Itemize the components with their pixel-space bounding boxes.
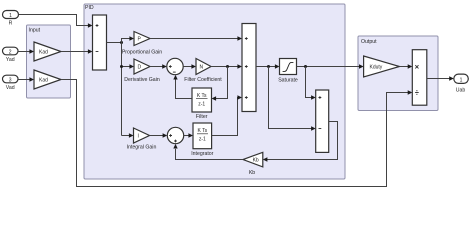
svg-text:Kad: Kad [39,49,48,55]
gain Kad2 [34,70,61,89]
wire D to sum circle 1 [150,64,167,68]
svg-text:Integrator: Integrator [191,151,213,157]
wire Kb to sum circle 2 bottom [173,144,243,160]
svg-text:K Ts: K Ts [197,93,207,99]
gain P Proportional Gain [122,32,162,56]
wire summer1 out to branch node [107,41,124,44]
saturation block Saturate [278,59,298,84]
svg-text:Output: Output [361,39,377,45]
svg-text:D: D [138,65,142,71]
discrete block Integrator K Ts/(z-1) [191,123,213,157]
svg-text:Filter: Filter [196,114,208,120]
wire Saturate out to Kduty with branch to summer3 in1 [297,64,364,99]
svg-text:K Ts: K Ts [197,128,207,134]
svg-text:Yad: Yad [6,57,15,63]
subsystem PID [84,4,345,179]
sum circle 2 (integrator sum) [167,127,183,143]
svg-text:z-1: z-1 [199,137,206,143]
svg-text:1: 1 [9,13,12,19]
svg-text:2: 2 [9,49,12,55]
svg-text:N: N [200,65,204,71]
wire product to output port [427,76,454,80]
gain D Derivative Gain [124,59,160,83]
gain Kad1 [34,42,61,61]
summer3 Add (sat - presat) [316,90,329,152]
gain Kduty [364,56,400,77]
subsystem Output [358,36,438,111]
wire summer2 out to Saturate with presat branch [256,64,316,130]
input port 1 R [3,11,19,27]
wire Kduty to product in1 [400,64,413,68]
svg-text:Derivative Gain: Derivative Gain [124,77,160,83]
sum circle 1 (derivative filter sum) [167,58,183,74]
wire Kad2 to product divide input (bottom route) [61,80,412,187]
svg-text:Kduty: Kduty [370,65,383,71]
product block Divide [412,50,427,105]
wire Kad1 to summer1 in2 [61,49,93,53]
svg-text:Proportional Gain: Proportional Gain [122,50,162,56]
svg-text:z-1: z-1 [198,102,205,108]
svg-text:Integral Gain: Integral Gain [127,145,157,151]
svg-text:Filter Coefficient: Filter Coefficient [184,77,222,83]
summer2 Add (P + N + I) [242,24,256,112]
svg-text:3: 3 [9,77,12,83]
gain I Integral Gain [127,128,157,151]
gain Kb (left pointing) [243,152,263,176]
wire N to summer2 in2 with junction to Filter [211,64,242,100]
wire Vad to gain Kad2 [18,77,34,81]
svg-text:Kb: Kb [253,157,259,163]
wire branch vertical to P D I [120,36,134,137]
svg-text:Vad: Vad [6,85,15,91]
discrete block Filter K Ts/(z-1) [192,88,212,120]
output port 1 Uab [454,74,469,93]
svg-text:Uab: Uab [456,88,466,94]
wire I to sum circle 2 [150,133,168,137]
wire R to summer1 in1 [19,15,93,28]
wire Yad to gain Kad1 [18,49,34,53]
subsystem Input [27,25,71,98]
wire sum circle 1 to gain N [183,64,196,68]
svg-text:Saturate: Saturate [278,78,298,84]
svg-text:Input: Input [29,28,41,34]
svg-text:Kb: Kb [249,170,255,176]
input port 3 Vad [3,75,19,91]
svg-text:PID: PID [85,5,94,11]
wire summer3 out to gain Kb [263,122,338,162]
svg-text:I: I [138,134,139,140]
wire Filter out to sum circle 1 bottom [173,75,192,99]
svg-text:R: R [9,21,13,27]
summer1 Add (R - Yad) [93,15,107,70]
svg-text:1: 1 [460,77,463,83]
input port 2 Yad [3,47,19,63]
wire P to summer2 in1 [150,36,242,40]
wire sum circle 2 to Integrator [184,133,193,137]
svg-text:Kad: Kad [39,77,48,83]
gain N Filter Coefficient [184,59,222,84]
wire Integrator to summer2 in3 [212,95,242,135]
